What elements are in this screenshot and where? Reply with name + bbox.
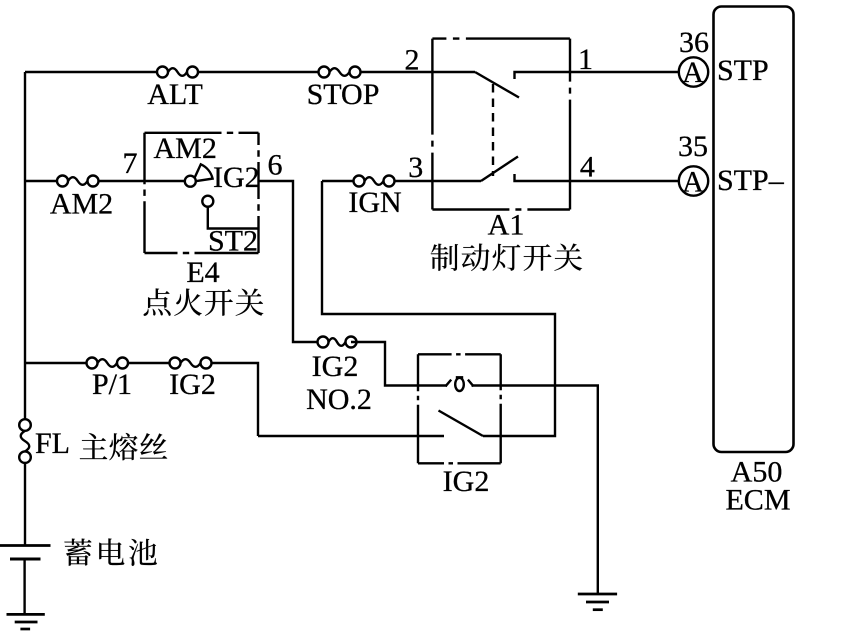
svg-text:NO.2: NO.2 — [306, 383, 372, 416]
svg-text:6: 6 — [268, 149, 283, 182]
label IG2 NO.2 (two lines) — [306, 350, 372, 416]
svg-text:A: A — [682, 165, 704, 198]
svg-text:2: 2 — [405, 44, 420, 77]
svg-text:FL: FL — [35, 427, 70, 460]
switch contact lower (pin3 to pin4) of A1 — [481, 157, 560, 182]
fuse STOP — [319, 67, 361, 78]
ECM connector terminal 35 (circled A) — [679, 165, 708, 198]
svg-text:A1: A1 — [488, 209, 525, 242]
ground (battery) — [7, 614, 45, 629]
wire AM2 rail from left bus to ignition switch pin 7 — [25, 180, 186, 182]
fuse IGN — [354, 176, 395, 187]
svg-text:E4: E4 — [186, 256, 219, 289]
label 点火开关 (ignition switch) — [144, 288, 264, 315]
svg-text:IG2: IG2 — [169, 368, 216, 401]
svg-text:4: 4 — [580, 151, 595, 184]
switch contact upper (pin2 to pin1) of A1 — [475, 72, 560, 98]
svg-text:36: 36 — [679, 26, 709, 59]
svg-text:IG2: IG2 — [312, 350, 359, 383]
fuse IG2 — [170, 358, 212, 369]
fuse FL main fusible link (vertical, on left bus) — [19, 419, 31, 463]
ground (relay coil) — [578, 594, 617, 610]
fuse P/1 — [87, 358, 129, 369]
svg-text:AM2: AM2 — [50, 188, 113, 221]
fuse ALT — [157, 67, 198, 78]
wire pin1 of A1 to ECM terminal 36 — [560, 71, 679, 73]
wire ST2 terminal to box edge — [208, 207, 259, 229]
wire ignition switch pin 6 down to IG2 NO.2 fuse — [259, 181, 324, 342]
svg-text:AM2: AM2 — [154, 132, 217, 165]
wire IG2 NO.2 fuse to relay coil and on to ground riser — [351, 342, 598, 594]
svg-text:STOP: STOP — [307, 78, 380, 111]
svg-text:ALT: ALT — [147, 78, 203, 111]
relay coil — [446, 378, 474, 392]
ST2 terminal circle — [202, 196, 213, 207]
svg-text:ST2: ST2 — [208, 225, 258, 258]
ECM box A50 (rounded) — [714, 7, 794, 453]
wire top rail (battery + through ALT and STOP fuses to brake switch) — [25, 71, 475, 73]
battery 蓄电池 — [0, 546, 51, 560]
label 制动灯开关 (brake light switch) — [431, 243, 582, 271]
label FL 主熔丝 (main fusible link) — [35, 427, 167, 460]
svg-text:STP: STP — [717, 54, 769, 87]
svg-text:P/1: P/1 — [92, 368, 132, 401]
ECM connector terminal 36 (circled A) — [679, 56, 708, 89]
wire pin4 of A1 to ECM terminal 35 — [560, 180, 679, 182]
ignition switch rotor contact (circle + wiper wedge) — [185, 164, 213, 186]
mechanical link (dashed) between A1 contacts — [492, 84, 494, 176]
svg-text:IG2: IG2 — [443, 465, 490, 498]
svg-text:35: 35 — [678, 130, 708, 163]
relay box IG2 (dash-dot) — [418, 354, 501, 463]
relay switch contact — [258, 411, 483, 437]
fuse AM2 — [57, 176, 99, 187]
svg-text:A: A — [682, 56, 704, 89]
fuse IG2 NO.2 — [318, 337, 357, 348]
svg-text:7: 7 — [123, 147, 138, 180]
svg-text:IGN: IGN — [348, 186, 401, 219]
svg-text:STP–: STP– — [717, 164, 785, 197]
label 蓄电池 (battery) — [64, 538, 157, 566]
brake light switch box A1 (dash-dot) — [432, 39, 570, 210]
wire IGN rail: relay output riser to IGN fuse and A1 pin 3 — [322, 180, 481, 182]
svg-text:IG2: IG2 — [213, 161, 260, 194]
svg-text:3: 3 — [408, 151, 423, 184]
ignition switch box E4 (dash-dot) — [145, 133, 259, 253]
wire left vertical bus from top rail down to battery — [24, 72, 26, 546]
wire P/1 + IG2 fuse rail from left bus to relay contact — [25, 363, 258, 436]
wire battery negative to chassis ground — [23, 559, 25, 614]
svg-text:ECM: ECM — [725, 484, 790, 517]
